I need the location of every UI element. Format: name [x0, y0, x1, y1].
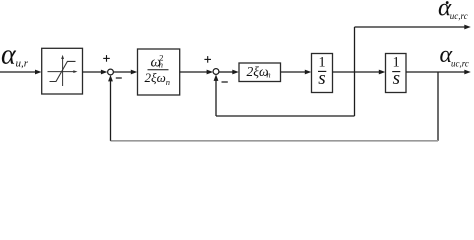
saturation block (limiter) — [42, 48, 83, 94]
svg-text:2ξω: 2ξω — [145, 70, 166, 85]
svg-text:u,r: u,r — [16, 58, 29, 70]
svg-text:2ξω: 2ξω — [247, 64, 269, 79]
plus sign junction 2 — [204, 56, 211, 63]
wire omega block to summing junction 2 — [180, 70, 213, 75]
minus sign junction 2 — [222, 81, 228, 83]
wire junction 2 to 2 xi omega_n block — [219, 70, 239, 75]
node takeoff vertical between integrators — [354, 27, 356, 116]
wire input arrow into saturation block — [0, 70, 42, 75]
block omega_n^2 / 2 xi omega_n — [138, 49, 180, 95]
minus sign junction 1 — [116, 77, 122, 79]
plus sign junction 1 — [103, 55, 110, 62]
node alpha_u,r input label — [1, 40, 29, 71]
block 2 xi omega_n — [239, 63, 281, 82]
integrator block 1/s second — [386, 54, 407, 93]
wire 2 xi omega_n block to integrator 1 — [281, 70, 312, 75]
wire outer feedback takeoff vertical at output — [437, 72, 439, 141]
svg-text:n: n — [166, 77, 170, 87]
node alpha-dot uc,rc output label — [438, 0, 468, 22]
wire inner feedback vertical up into junction 2 — [214, 74, 219, 116]
summing junction 2 — [213, 69, 219, 75]
summing junction 1 — [108, 69, 114, 75]
wire integrator 2 to output arrow — [406, 70, 471, 75]
wire saturation block to summing junction 1 — [83, 70, 108, 75]
wire outer feedback bottom horizontal — [111, 140, 439, 142]
svg-text:n: n — [159, 60, 163, 70]
wire junction 1 to omega block — [113, 70, 137, 75]
integrator block 1/s first — [312, 54, 333, 93]
wire derivative output top arrow — [355, 25, 471, 30]
svg-text:s: s — [393, 68, 400, 89]
wire inner feedback bottom horizontal — [216, 115, 355, 117]
node alpha uc,rc output label — [440, 42, 469, 68]
wire integrator 1 to integrator 2 — [333, 70, 386, 75]
svg-text:n: n — [266, 70, 270, 80]
wire outer feedback vertical up into junction 1 — [108, 75, 113, 141]
svg-text:uc,rc: uc,rc — [450, 11, 468, 21]
svg-text:uc,rc: uc,rc — [451, 58, 469, 68]
svg-text:s: s — [318, 68, 325, 89]
